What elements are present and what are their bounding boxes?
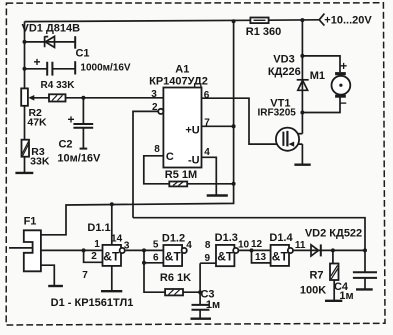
- svg-text:1000м/16V: 1000м/16V: [80, 63, 131, 74]
- svg-text:D1.3: D1.3: [215, 232, 238, 244]
- svg-text:&T: &T: [217, 250, 234, 264]
- svg-text:1: 1: [94, 239, 100, 250]
- svg-text:+: +: [340, 59, 347, 73]
- svg-text:4: 4: [186, 240, 192, 251]
- svg-text:R1 360: R1 360: [246, 26, 281, 38]
- svg-text:+: +: [33, 55, 40, 69]
- svg-text:R7: R7: [309, 269, 323, 281]
- svg-text:4: 4: [204, 147, 210, 158]
- svg-text:10м/16V: 10м/16V: [57, 152, 101, 164]
- svg-text:−: −: [340, 96, 347, 110]
- svg-text:2: 2: [152, 102, 158, 113]
- svg-text:R4 33K: R4 33K: [41, 80, 76, 91]
- svg-text:1м: 1м: [206, 299, 220, 311]
- svg-text:9: 9: [205, 253, 211, 264]
- svg-text:A1: A1: [175, 63, 189, 75]
- svg-text:14: 14: [111, 234, 123, 245]
- svg-text:C: C: [166, 151, 174, 163]
- svg-text:1м: 1м: [339, 290, 353, 302]
- svg-text:&T: &T: [103, 250, 120, 264]
- svg-text:D1.2: D1.2: [162, 233, 185, 245]
- svg-text:3: 3: [151, 89, 157, 100]
- svg-text:6: 6: [204, 90, 210, 101]
- svg-text:11: 11: [295, 240, 306, 251]
- svg-text:8: 8: [205, 240, 211, 251]
- svg-text:КД226: КД226: [268, 66, 301, 78]
- svg-text:100K: 100K: [300, 285, 326, 297]
- svg-text:&T: &T: [272, 250, 289, 264]
- svg-text:КР1407УД2: КР1407УД2: [149, 75, 208, 87]
- svg-text:12: 12: [251, 239, 263, 250]
- svg-text:C2: C2: [58, 139, 72, 151]
- svg-text:D1.1: D1.1: [87, 222, 110, 234]
- svg-text:6: 6: [153, 252, 159, 263]
- svg-text:7: 7: [82, 270, 88, 281]
- svg-text:33K: 33K: [30, 156, 50, 168]
- svg-text:+10...20V: +10...20V: [324, 14, 372, 26]
- svg-text:VD3: VD3: [273, 53, 294, 65]
- svg-text:+: +: [67, 113, 74, 127]
- svg-text:+U: +U: [185, 125, 199, 137]
- svg-text:47K: 47K: [27, 117, 47, 129]
- svg-text:D1.4: D1.4: [269, 232, 293, 244]
- svg-text:5: 5: [153, 240, 159, 251]
- svg-text:7: 7: [204, 118, 210, 129]
- svg-text:3: 3: [124, 241, 130, 252]
- svg-text:8: 8: [154, 144, 160, 155]
- svg-text:2: 2: [91, 251, 97, 262]
- svg-text:&T: &T: [165, 250, 182, 264]
- svg-text:M1: M1: [310, 70, 325, 82]
- svg-text:C1: C1: [75, 47, 89, 59]
- svg-text:VD1 Д814В: VD1 Д814В: [22, 23, 81, 35]
- svg-text:R6 1K: R6 1K: [160, 272, 191, 284]
- svg-text:F1: F1: [24, 215, 37, 227]
- svg-text:IRF3205: IRF3205: [258, 108, 297, 119]
- svg-text:VD2 КД522: VD2 КД522: [305, 227, 362, 239]
- svg-text:13: 13: [255, 252, 267, 263]
- svg-text:D1 - КР1561ТЛ1: D1 - КР1561ТЛ1: [51, 297, 134, 309]
- svg-text:-U: -U: [188, 155, 200, 167]
- svg-text:R5 1M: R5 1M: [165, 169, 197, 181]
- svg-text:10: 10: [238, 239, 250, 250]
